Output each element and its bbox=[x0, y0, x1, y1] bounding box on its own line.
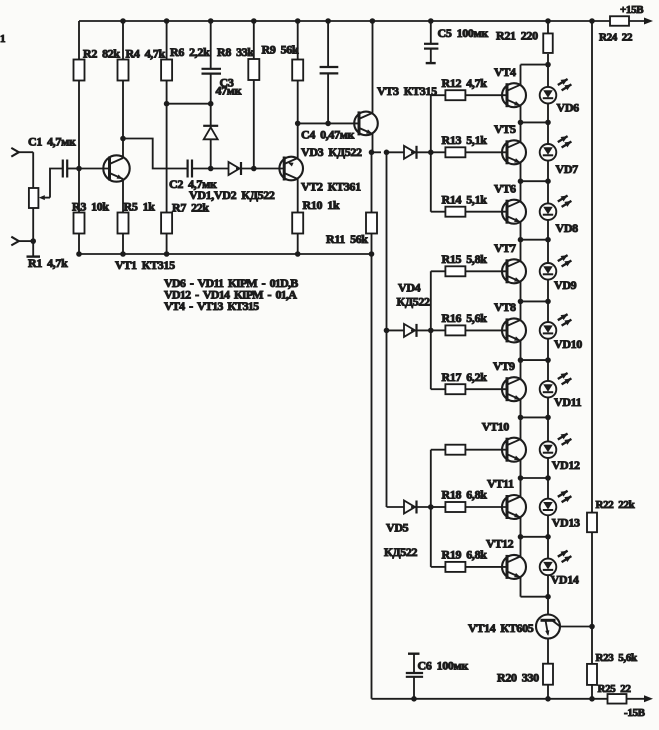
svg-text:VT9: VT9 bbox=[493, 359, 515, 373]
svg-text:R16 5,6k: R16 5,6k bbox=[442, 311, 488, 325]
svg-text:-15В: -15В bbox=[624, 707, 646, 719]
svg-text:R8 33k: R8 33k bbox=[217, 45, 254, 59]
svg-text:VD6: VD6 bbox=[557, 100, 580, 114]
svg-text:C6 100мк: C6 100мк bbox=[418, 658, 469, 672]
svg-text:R21 220: R21 220 bbox=[496, 29, 538, 43]
svg-text:КД522: КД522 bbox=[397, 295, 431, 309]
svg-text:C1 4,7мк: C1 4,7мк bbox=[28, 135, 76, 149]
svg-text:VT11: VT11 bbox=[487, 477, 514, 491]
svg-text:R7 22k: R7 22k bbox=[172, 201, 209, 215]
svg-text:VT6: VT6 bbox=[494, 181, 516, 195]
svg-text:R5 1k: R5 1k bbox=[124, 200, 156, 214]
svg-text:C4 0,47мк: C4 0,47мк bbox=[301, 128, 355, 142]
svg-text:R19 6,8k: R19 6,8k bbox=[442, 548, 488, 562]
svg-text:+15В: +15В bbox=[620, 4, 644, 16]
svg-text:VT14 КТ605: VT14 КТ605 bbox=[468, 621, 534, 635]
svg-text:VD5: VD5 bbox=[386, 521, 409, 535]
svg-text:VD8: VD8 bbox=[556, 221, 579, 235]
svg-text:R3 10k: R3 10k bbox=[72, 200, 109, 214]
svg-text:R9 56k: R9 56k bbox=[262, 43, 299, 57]
svg-text:VT4 - VT13 КТ315: VT4 - VT13 КТ315 bbox=[164, 299, 259, 313]
svg-text:VD14: VD14 bbox=[551, 573, 579, 587]
svg-text:R17 6,2k: R17 6,2k bbox=[442, 370, 488, 384]
svg-text:R12 4,7k: R12 4,7k bbox=[442, 76, 488, 90]
svg-text:R6 2,2k: R6 2,2k bbox=[170, 45, 210, 59]
svg-text:VD3 КД522: VD3 КД522 bbox=[301, 145, 362, 159]
svg-text:VD7: VD7 bbox=[556, 162, 579, 176]
svg-text:47мк: 47мк bbox=[216, 84, 242, 98]
svg-text:R2 82k: R2 82k bbox=[83, 47, 120, 61]
svg-text:VT2 КТ361: VT2 КТ361 bbox=[301, 180, 361, 194]
svg-text:VT1 КТ315: VT1 КТ315 bbox=[115, 258, 175, 272]
svg-text:R24 22: R24 22 bbox=[599, 32, 633, 44]
svg-text:R15 5,8k: R15 5,8k bbox=[442, 252, 488, 266]
svg-text:1: 1 bbox=[0, 33, 5, 45]
svg-text:VD12: VD12 bbox=[552, 458, 580, 472]
svg-text:R20 330: R20 330 bbox=[497, 671, 539, 685]
svg-text:R23 5,6k: R23 5,6k bbox=[596, 652, 638, 664]
svg-text:VT8: VT8 bbox=[494, 300, 516, 314]
svg-text:R25 22: R25 22 bbox=[598, 683, 632, 695]
svg-text:VD4: VD4 bbox=[398, 281, 421, 295]
svg-text:КД522: КД522 bbox=[384, 545, 418, 559]
svg-text:R18 6,8k: R18 6,8k bbox=[442, 488, 488, 502]
svg-text:R4 4,7k: R4 4,7k bbox=[126, 47, 166, 61]
svg-text:VD13: VD13 bbox=[552, 516, 580, 530]
svg-text:VD11: VD11 bbox=[554, 395, 582, 409]
svg-text:VT3 КТ315: VT3 КТ315 bbox=[377, 84, 437, 98]
svg-text:R10 1k: R10 1k bbox=[303, 198, 340, 212]
svg-text:C5 100мк: C5 100мк bbox=[438, 26, 489, 40]
svg-text:VT12: VT12 bbox=[486, 537, 514, 551]
svg-text:R14 5,1k: R14 5,1k bbox=[442, 192, 488, 206]
svg-text:R13 5,1k: R13 5,1k bbox=[442, 133, 488, 147]
svg-text:VD10: VD10 bbox=[554, 337, 582, 351]
svg-text:VD1,VD2 КД522: VD1,VD2 КД522 bbox=[189, 188, 275, 202]
svg-text:VT10: VT10 bbox=[482, 419, 510, 433]
svg-text:R11 56k: R11 56k bbox=[326, 232, 368, 246]
svg-text:R22 22k: R22 22k bbox=[596, 499, 636, 511]
svg-text:VT5: VT5 bbox=[494, 122, 516, 136]
svg-text:VT4: VT4 bbox=[494, 65, 516, 79]
svg-text:VD9: VD9 bbox=[554, 278, 577, 292]
svg-text:R1 4,7k: R1 4,7k bbox=[28, 256, 68, 270]
svg-text:VT7: VT7 bbox=[494, 241, 516, 255]
